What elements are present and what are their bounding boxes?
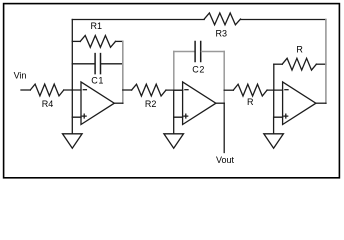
svg-text:R4: R4	[42, 99, 54, 109]
label R4	[42, 99, 54, 109]
wire	[64, 89, 81, 91]
svg-text:Vin: Vin	[14, 70, 27, 80]
svg-text:R: R	[247, 97, 254, 107]
label R2	[145, 99, 157, 109]
resistor R feedback	[274, 63, 282, 65]
svg-text:C1: C1	[91, 76, 104, 86]
resistor R	[233, 84, 267, 96]
wire	[72, 19, 204, 21]
pin - inverting input op-amp 1	[83, 89, 86, 91]
capacitor C2	[174, 51, 195, 53]
wire	[273, 64, 275, 90]
ground	[63, 134, 83, 148]
svg-text:R: R	[296, 45, 303, 55]
wire	[123, 89, 132, 91]
wire	[174, 89, 183, 91]
pin + non-inverting input op-amp 3	[284, 114, 288, 118]
label R feedback	[296, 45, 303, 55]
wire	[216, 102, 224, 104]
label C2	[192, 65, 205, 75]
wire	[71, 90, 73, 117]
label R	[247, 97, 254, 107]
label R1	[91, 21, 103, 31]
label R3	[216, 28, 228, 38]
pin + non-inverting input op-amp 1	[82, 114, 86, 118]
wire	[267, 89, 283, 91]
ground	[264, 134, 284, 148]
wire	[173, 90, 175, 117]
op-amp 1	[81, 82, 114, 125]
wire	[223, 52, 225, 104]
wire	[71, 20, 73, 91]
wire	[114, 102, 123, 104]
wire	[223, 103, 225, 152]
node Vout	[216, 155, 235, 165]
pin - inverting input op-amp 2	[185, 89, 188, 91]
wire	[325, 20, 327, 104]
wire	[241, 19, 326, 21]
resistor R4	[30, 84, 64, 96]
resistor R1	[72, 40, 80, 42]
svg-text:R1: R1	[91, 21, 103, 31]
wire	[316, 102, 326, 104]
resistor R3	[204, 13, 240, 25]
svg-text:R2: R2	[145, 99, 157, 109]
ground	[164, 134, 184, 148]
op-amp 2	[183, 82, 216, 125]
pin + non-inverting input op-amp 2	[184, 114, 188, 118]
svg-text:Vout: Vout	[216, 155, 235, 165]
wire	[72, 117, 81, 134]
wire	[273, 90, 275, 117]
label C1	[91, 76, 104, 86]
capacitor C1	[72, 63, 94, 65]
resistor R2	[132, 84, 166, 96]
wire	[21, 89, 30, 91]
svg-text:R3: R3	[216, 28, 228, 38]
wire	[173, 52, 175, 91]
wire	[224, 89, 233, 91]
svg-text:C2: C2	[192, 65, 205, 75]
wire	[174, 117, 183, 134]
wire	[166, 89, 183, 91]
node Vin	[14, 70, 27, 80]
wire	[274, 117, 283, 134]
wire	[122, 41, 124, 103]
op-amp 3	[283, 82, 316, 125]
pin - inverting input op-amp 3	[285, 89, 288, 91]
